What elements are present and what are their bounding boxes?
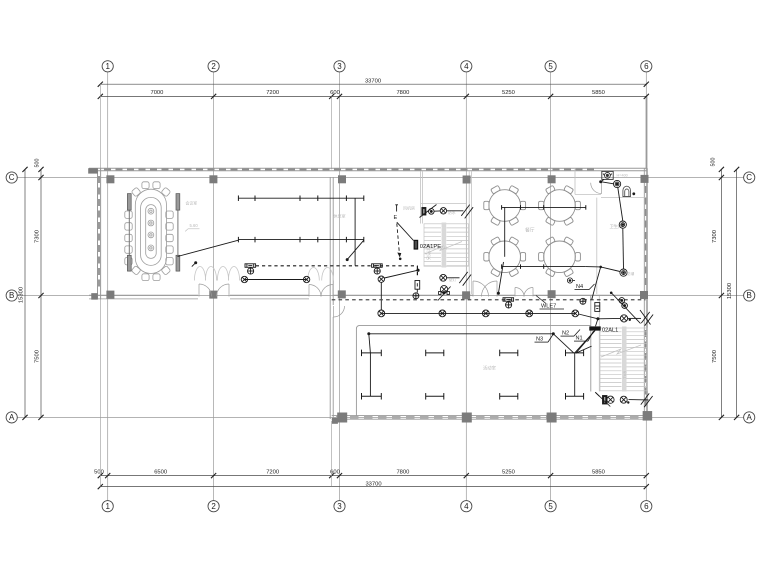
svg-text:壁灯: 壁灯 (449, 277, 457, 282)
svg-text:33700: 33700 (365, 79, 381, 85)
switch SE right (641, 393, 653, 407)
ceiling box corridor (503, 298, 514, 308)
svg-text:餐厅: 餐厅 (525, 227, 535, 234)
column C6 (641, 175, 649, 183)
switch dot conference (194, 261, 197, 264)
column A3 (337, 413, 347, 423)
svg-text:5850: 5850 (592, 90, 605, 96)
door dining left (473, 281, 489, 297)
window dashes north wall (104, 168, 598, 170)
door dining right (482, 281, 498, 297)
svg-text:02AL1: 02AL1 (602, 328, 618, 334)
conference chairs (125, 182, 173, 281)
wire stairSE top diag (640, 310, 651, 325)
door restroom (591, 183, 602, 194)
dot right B (596, 317, 599, 320)
grid line 1 (vertical) (107, 72, 109, 501)
column A4 (462, 413, 472, 423)
wire dot to corridor lamp (579, 314, 598, 319)
dashed arrow wire (397, 223, 400, 252)
conference table (135, 189, 166, 273)
lamp fanroom (440, 208, 446, 214)
dining wire row2 (502, 266, 586, 268)
fluorescent activity A1 (362, 352, 382, 354)
svg-text:5250: 5250 (502, 469, 515, 475)
svg-text:H=400: H=400 (617, 174, 628, 178)
extension line bottom wallM (331, 421, 333, 487)
corridor lamp wire (381, 312, 575, 314)
grid bubble 5 bottom (545, 501, 556, 512)
switch fanroom (461, 205, 473, 219)
wire N1 run (575, 331, 595, 397)
level mark 5.60 (185, 223, 199, 231)
svg-text:会议室: 会议室 (186, 201, 198, 206)
column B1 (106, 291, 114, 299)
emergency sign E (395, 205, 398, 212)
lamp room2 b (303, 276, 309, 282)
wire serving to dining (586, 267, 620, 272)
column C4 (463, 176, 471, 184)
svg-text:N3: N3 (536, 337, 543, 343)
svg-text:N2: N2 (562, 331, 569, 337)
column B2 (209, 291, 217, 299)
svg-text:7000: 7000 (150, 90, 163, 96)
svg-text:4: 4 (464, 502, 469, 511)
column B5 (548, 290, 556, 298)
svg-text:E: E (394, 215, 398, 221)
wall east (643, 168, 645, 419)
svg-text:A: A (9, 413, 15, 422)
grid bubble 2 bottom (208, 501, 219, 512)
dimension line bottom overall (100, 486, 646, 488)
grid line 6 thick extension (646, 96, 648, 169)
double lamp symbol (619, 298, 627, 309)
svg-text:5: 5 (548, 62, 553, 71)
wire stairC lamp (447, 277, 460, 279)
exhaust fan (602, 171, 613, 179)
dot near toilet (632, 192, 635, 195)
grid bubble 1 top (102, 61, 113, 72)
dining table 2 (539, 185, 581, 225)
wall B upper-left wing (89, 294, 198, 296)
switch wire lobby (346, 258, 349, 261)
fluorescent activity A3 (500, 352, 518, 354)
column A5 (547, 413, 557, 423)
svg-text:5: 5 (548, 502, 553, 511)
staircase central (424, 224, 469, 266)
wall activity room north with rounded corner (356, 325, 590, 415)
svg-text:N4: N4 (576, 284, 583, 290)
lamp serving 3 (620, 269, 627, 276)
dashed wire y265.7 (256, 265, 418, 267)
wire dining to B dot (498, 262, 503, 293)
extension line bottom wallL (99, 299, 101, 487)
door conference right leaf (217, 284, 230, 297)
fluorescent row 2 (upper) (238, 239, 363, 241)
wire lobby lamp diag (384, 270, 418, 278)
grid line 6 (vertical) (645, 72, 647, 501)
conference rail right (176, 194, 180, 272)
fluorescent activity B1 (362, 395, 382, 397)
staircase SE (600, 328, 647, 391)
wall stair-lobby east (dining west) (468, 171, 470, 294)
svg-text:7800: 7800 (396, 90, 409, 96)
grid bubble C right (744, 172, 755, 183)
svg-text:15300: 15300 (727, 283, 733, 299)
svg-text:6: 6 (644, 62, 649, 71)
door dining2 right (524, 288, 533, 297)
dining wire vertical (504, 207, 506, 256)
svg-text:6: 6 (644, 502, 649, 511)
lamp room2 a (241, 276, 247, 282)
svg-text:5850: 5850 (592, 469, 605, 475)
svg-text:C: C (9, 173, 15, 182)
wire E to panel (397, 222, 414, 240)
grid bubble B left (6, 290, 17, 301)
lamp SE stair (620, 396, 627, 403)
grid bubble C left (6, 172, 17, 183)
dimension line left segments (40, 169, 42, 417)
wall B middle wing (333, 294, 473, 296)
wire N3 run (552, 332, 555, 335)
svg-text:15300: 15300 (19, 287, 25, 303)
wall restroom south (575, 193, 601, 195)
svg-text:B: B (9, 291, 14, 300)
grid bubble 4 bottom (461, 501, 472, 512)
column C3 (338, 175, 346, 183)
window dashes south wall (336, 416, 645, 419)
svg-text:C: C (746, 173, 752, 182)
conference rail left (127, 194, 131, 272)
ceiling box room2 (245, 264, 256, 274)
svg-text:6500: 6500 (154, 469, 167, 475)
svg-text:4: 4 (464, 62, 469, 71)
svg-text:风机房: 风机房 (403, 204, 415, 210)
toilet (623, 186, 631, 196)
grid bubble 2 top (208, 61, 219, 72)
socket cross symbol (580, 298, 586, 304)
grid line 3 (vertical) (339, 72, 341, 501)
grid bubble A right (744, 412, 755, 423)
column A-corner (332, 418, 338, 424)
svg-text:休息室: 休息室 (334, 213, 346, 219)
svg-text:500: 500 (711, 158, 717, 167)
wall middle west (329, 177, 331, 419)
wall serving west (596, 198, 598, 294)
fluorescent activity B2 (426, 395, 444, 397)
svg-text:防潮: 防潮 (627, 271, 635, 276)
wire SE stair lamp (629, 399, 649, 401)
svg-text:33700: 33700 (365, 481, 381, 487)
thermostat (567, 278, 575, 283)
column C-corner (88, 168, 98, 173)
svg-text:3: 3 (337, 502, 342, 511)
window dashes east wall (645, 186, 647, 288)
window dashes west wall (98, 176, 100, 290)
svg-text:7200: 7200 (266, 469, 279, 475)
fluorescent activity B4 (566, 395, 584, 397)
grid bubble B right (744, 290, 755, 301)
svg-text:B: B (747, 291, 752, 300)
svg-text:7500: 7500 (712, 350, 718, 363)
svg-text:1: 1 (105, 502, 110, 511)
dining wire row1 (502, 206, 586, 208)
wire V panel (576, 331, 595, 354)
column B4 (462, 291, 470, 299)
grid line 2 (vertical) (213, 72, 215, 501)
svg-text:7200: 7200 (266, 90, 279, 96)
svg-text:600: 600 (330, 90, 340, 96)
svg-text:02A1PE: 02A1PE (420, 244, 441, 250)
grid bubble 1 bottom (102, 501, 113, 512)
grid line B (horizontal) (17, 295, 743, 297)
dining table 4 (539, 237, 581, 277)
svg-text:N1: N1 (576, 336, 583, 342)
wall fan room west (420, 171, 422, 224)
switch right B (641, 312, 653, 326)
column B-corner (91, 293, 98, 300)
dimension line left overall (24, 169, 26, 417)
scallop arcs lounge door (308, 268, 334, 281)
svg-text:7X8: 7X8 (623, 370, 628, 379)
wire lobby lamp down (380, 282, 382, 310)
wall north (89, 167, 647, 169)
lamp serving 2 (619, 221, 626, 228)
switch SE left (595, 392, 599, 396)
wall west upper wing (97, 168, 99, 299)
column A6 (643, 411, 653, 421)
wall restroom west (574, 168, 576, 194)
dining table 3 (484, 237, 526, 277)
door dining2 left (515, 288, 524, 297)
wire dot-lamp1 (601, 182, 614, 184)
dashed wire corner down (416, 266, 418, 277)
svg-text:7800: 7800 (396, 469, 409, 475)
door lounge right leaf (321, 285, 333, 297)
wall south (332, 415, 649, 417)
column B6 (640, 291, 648, 299)
dashed wire corridor (332, 299, 646, 301)
svg-text:活动室: 活动室 (483, 365, 497, 372)
column B3 (338, 290, 346, 298)
grid bubble 6 bottom (641, 501, 652, 512)
wire N4 curve (592, 267, 601, 300)
ceiling box lobby (372, 264, 383, 274)
fluorescent activity A4 (566, 352, 584, 354)
lamp corridor 4 (526, 310, 533, 317)
svg-text:A: A (747, 413, 753, 422)
grid bubble 6 top (641, 61, 652, 72)
svg-text:2: 2 (211, 502, 216, 511)
fluorescent activity B3 (500, 395, 518, 397)
dimension line right overall (736, 169, 738, 417)
lamp stairC (440, 274, 447, 281)
wire right B row (598, 317, 621, 319)
lamp corridor 3 (482, 310, 489, 317)
svg-text:1: 1 (105, 62, 110, 71)
grid line C (horizontal) (17, 177, 743, 179)
wire lamps vertical (618, 188, 623, 222)
grid bubble 3 bottom (334, 501, 345, 512)
wire activity left vertical (369, 353, 371, 396)
svg-text:7300: 7300 (712, 230, 718, 243)
panel 02A1PE (414, 240, 419, 250)
svg-text:500: 500 (35, 159, 41, 168)
wire fanroom lamp-switch (447, 210, 464, 212)
lamp corridor 5 (572, 310, 579, 317)
dining table 1 (484, 185, 526, 225)
lamp lobby (378, 276, 384, 282)
extension line top wallL (99, 84, 101, 169)
dimension line top segments (100, 95, 646, 97)
ornate lamp SE (596, 393, 615, 407)
fluorescent row 1 (upper) (238, 197, 363, 199)
wall fan room south (421, 202, 466, 204)
door conference left leaf (199, 284, 212, 297)
lamp corridor 1 (378, 310, 385, 317)
lamp corridor 2 (439, 310, 446, 317)
column C5 (548, 175, 556, 183)
svg-text:上: 上 (441, 246, 447, 250)
wire vertical x355 (354, 198, 356, 266)
column C1 (106, 175, 114, 183)
svg-text:卫生间: 卫生间 (610, 223, 623, 230)
switch stairC (459, 272, 471, 286)
grid line A (horizontal) (17, 416, 743, 418)
svg-text:7500: 7500 (35, 350, 41, 363)
socket rect symbol (595, 303, 600, 312)
grid line 5 (vertical) (550, 72, 552, 501)
grid bubble 4 top (461, 61, 472, 72)
room2 lamp wire (244, 279, 306, 281)
wire conference diagonal (178, 240, 239, 256)
svg-text:2: 2 (211, 62, 216, 71)
door corridor west (334, 306, 345, 317)
grid line 4 (vertical) (465, 72, 467, 501)
fan room switch box (422, 208, 434, 216)
dimension line right segments (720, 169, 722, 417)
panel 02AL1 (589, 326, 600, 330)
svg-text:500: 500 (94, 469, 104, 475)
wire dot to panel (596, 319, 598, 327)
svg-text:7300: 7300 (35, 230, 41, 243)
dimension line top overall (100, 83, 646, 85)
grid bubble 5 top (545, 61, 556, 72)
column C2 (209, 175, 217, 183)
socket symbol lobby (413, 281, 420, 299)
grid bubble A left (6, 412, 17, 423)
scallop arcs conference door (194, 266, 239, 280)
svg-text:5250: 5250 (502, 90, 515, 96)
dimension line bottom segments (100, 475, 646, 477)
grid bubble 3 top (334, 61, 345, 72)
extension line top wallM (331, 96, 333, 169)
svg-text:5.60: 5.60 (190, 223, 199, 228)
wire N2 diag (553, 334, 573, 353)
wire fan-dot (599, 180, 602, 183)
lamp restroom 1 (614, 180, 621, 187)
fluorescent activity A2 (426, 352, 444, 354)
svg-text:3: 3 (337, 62, 342, 71)
wall stairwell SE west (590, 296, 592, 392)
lamp right B (620, 315, 627, 322)
ornate lamp stairC (438, 286, 451, 301)
door lounge left leaf (309, 285, 321, 297)
